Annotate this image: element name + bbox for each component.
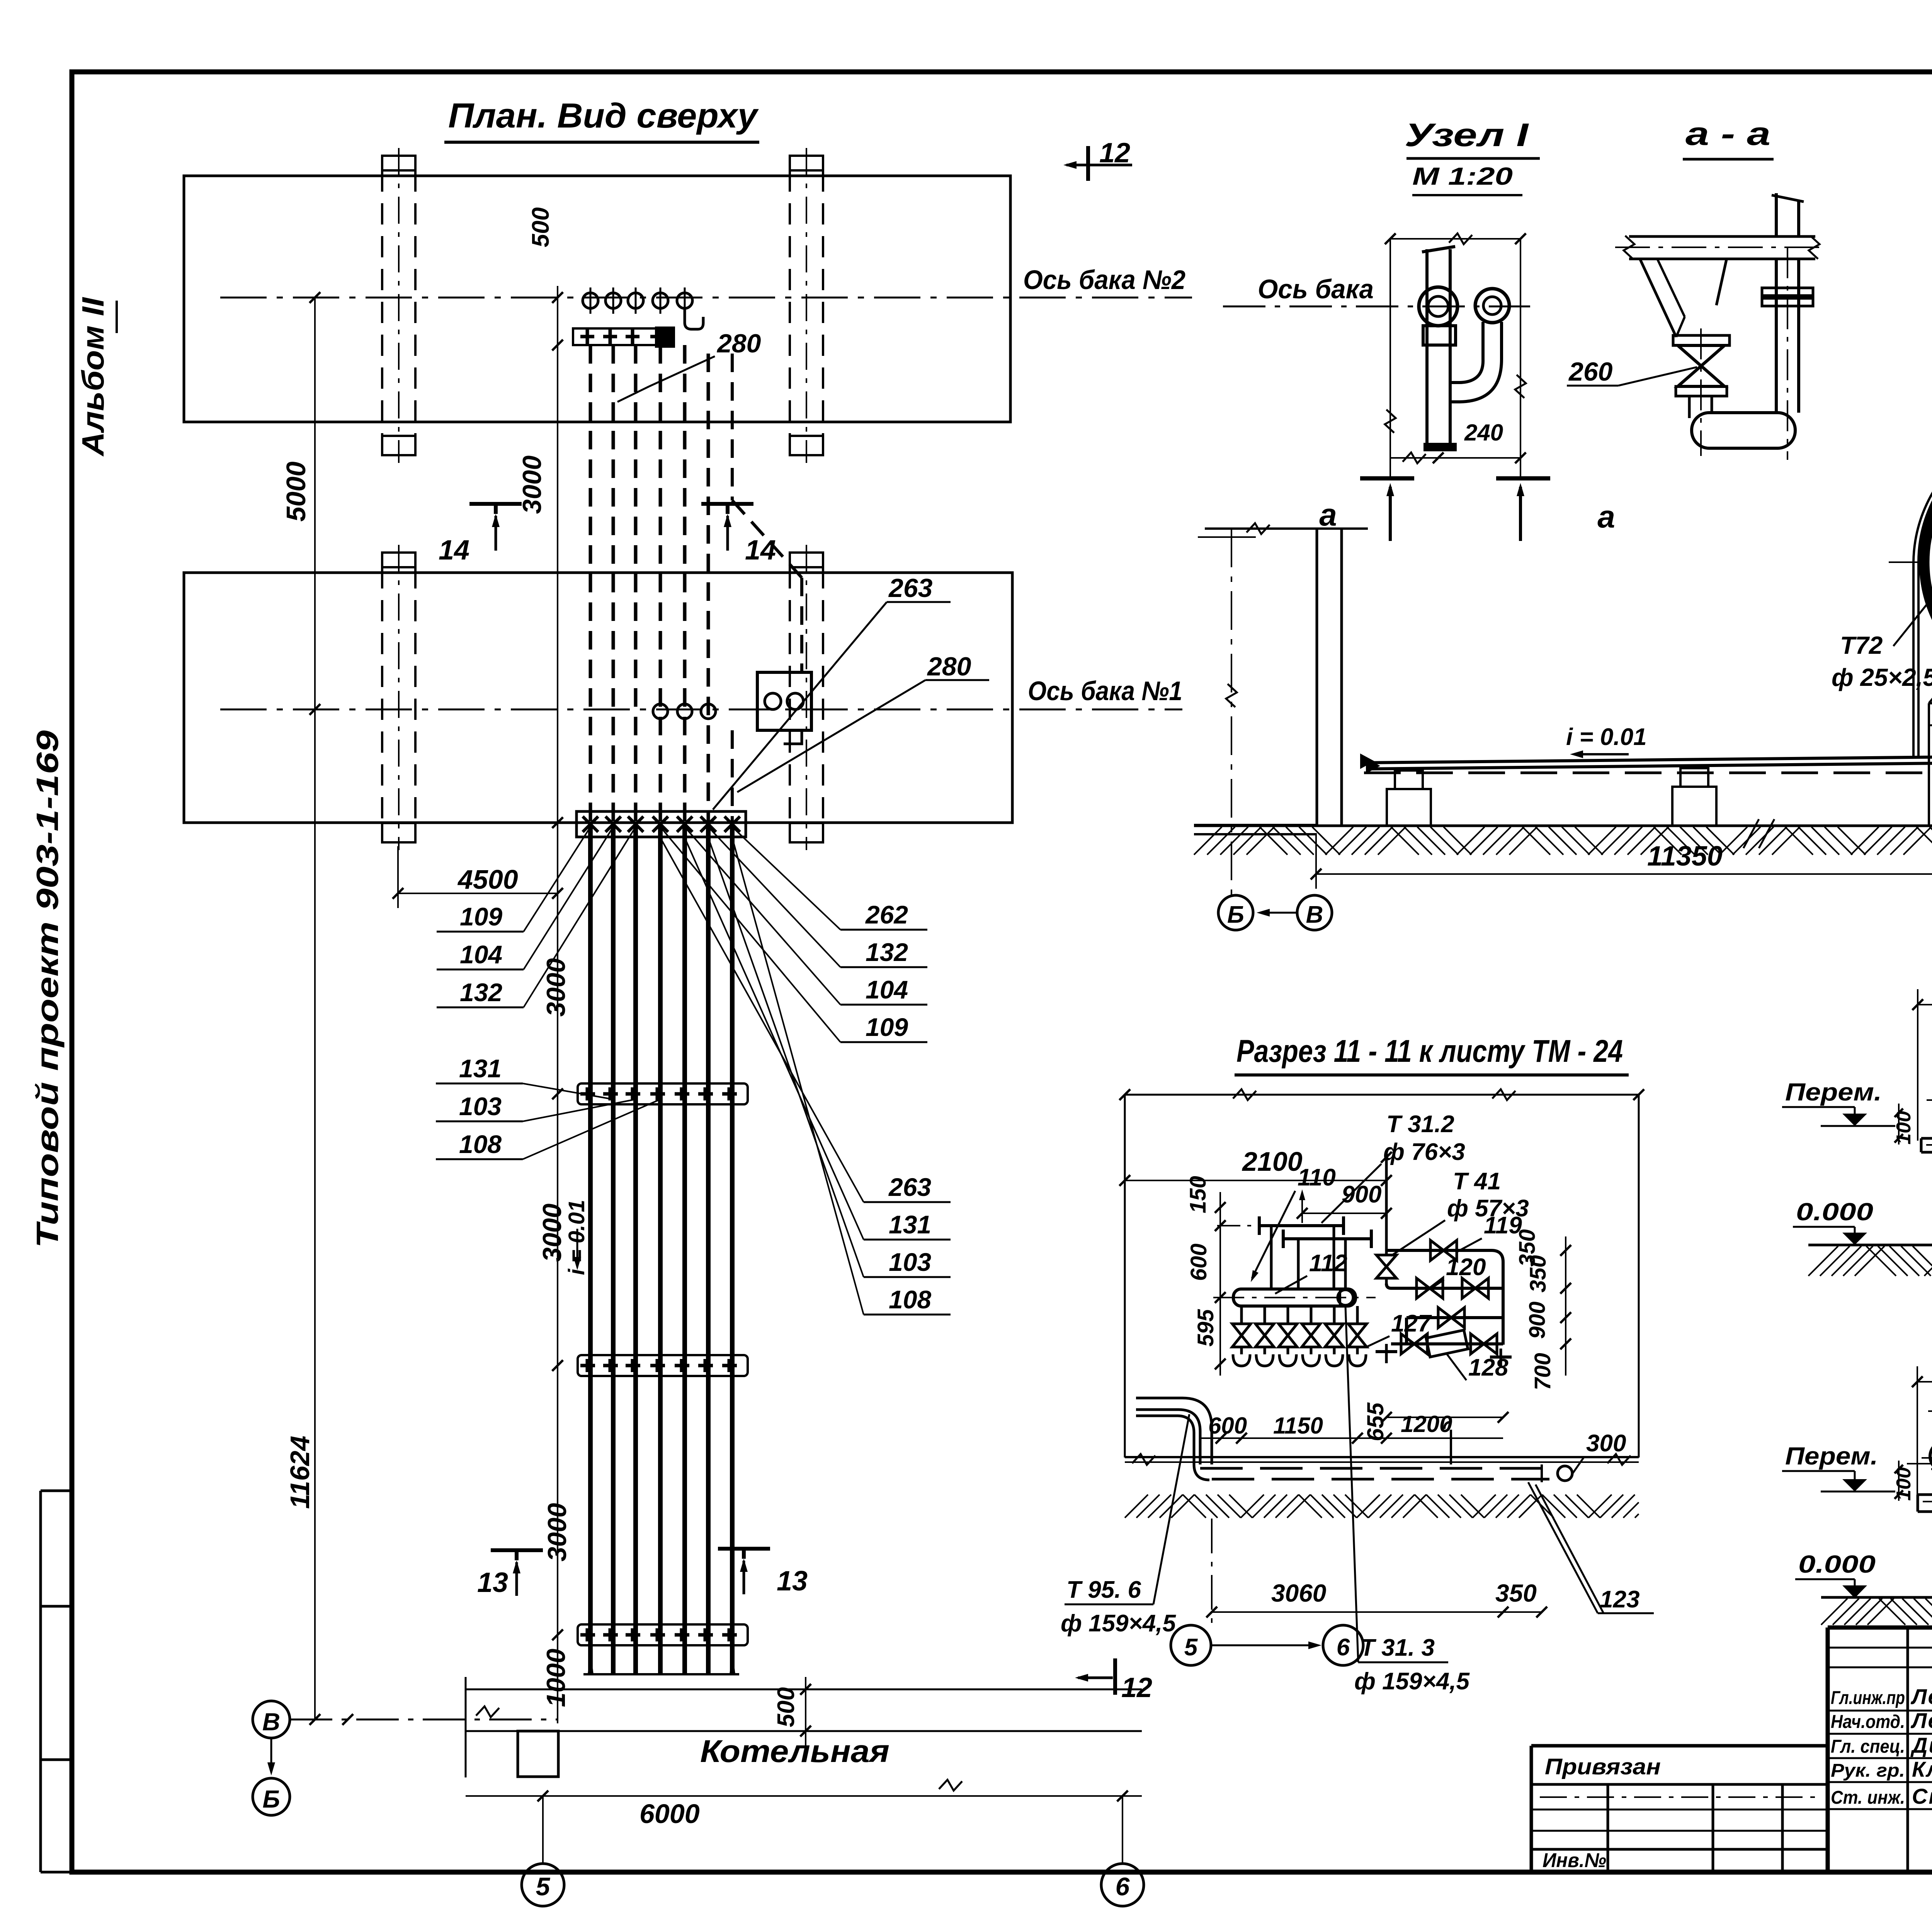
attachment table centerline: [1540, 1796, 1822, 1798]
a-a right pipe flange: [1762, 288, 1813, 296]
anchor box with X-marks at tank1 bottom: [577, 811, 746, 837]
grid axis Б dash-dot vertical: [1231, 529, 1232, 896]
svg-text:1150: 1150: [1273, 1413, 1323, 1439]
svg-text:5000: 5000: [281, 461, 311, 522]
svg-text:900: 900: [1525, 1301, 1550, 1339]
svg-text:14: 14: [439, 535, 469, 566]
svg-text:ф 159×4,5: ф 159×4,5: [1061, 1610, 1176, 1637]
svg-text:ф 25×2,5: ф 25×2,5: [1832, 663, 1932, 691]
grid circle 6 (11-11): [1323, 1625, 1363, 1665]
svg-text:5: 5: [536, 1872, 551, 1901]
node I flange circle 1: [1419, 287, 1458, 326]
support beam 13-13: [1921, 1137, 1932, 1140]
svg-text:6000: 6000: [639, 1799, 700, 1829]
svg-text:3000: 3000: [537, 1204, 567, 1262]
svg-text:108: 108: [889, 1285, 931, 1314]
node I tank axis line: [1223, 306, 1530, 308]
svg-text:Узел I: Узел I: [1405, 117, 1529, 153]
section mark 12 top: [1086, 146, 1090, 181]
svg-text:131: 131: [459, 1054, 502, 1083]
11-11 top boundary line: [1125, 1094, 1639, 1096]
svg-text:i = 0.01: i = 0.01: [1566, 724, 1647, 750]
a-a valve flange bottom: [1676, 386, 1727, 396]
support base: [1928, 703, 1930, 825]
node I top dimension line: [1390, 238, 1520, 240]
pipe support band 1: [578, 1083, 748, 1104]
svg-text:109: 109: [866, 1013, 908, 1041]
svg-text:а - а: а - а: [1685, 116, 1770, 152]
bracket drop rods: [1270, 1226, 1273, 1289]
grid circle 5 (11-11): [1171, 1625, 1211, 1665]
svg-text:280: 280: [716, 329, 761, 358]
svg-text:120: 120: [1446, 1254, 1486, 1281]
support beam 14-14: [1918, 1493, 1932, 1496]
svg-text:350: 350: [1515, 1229, 1540, 1267]
left margin strip boxes: [39, 1491, 42, 1872]
11-11 pipe branch B: [1386, 1284, 1503, 1288]
svg-text:Клоков: Клоков: [1912, 1757, 1932, 1781]
svg-text:350: 350: [1495, 1579, 1537, 1607]
svg-text:Ось бака №1: Ось бака №1: [1028, 676, 1182, 706]
dim line 11350 / 4500: [1316, 873, 1932, 875]
svg-text:а: а: [1319, 497, 1337, 532]
node I flange circle 2: [1475, 289, 1509, 323]
boiler house wall lines (plan bottom): [466, 1689, 1142, 1690]
svg-text:14: 14: [745, 535, 776, 566]
svg-text:Левитан: Левитан: [1910, 1684, 1932, 1709]
svg-text:12: 12: [1121, 1672, 1152, 1703]
axis line tank No.1: [220, 709, 1182, 711]
collector outlet valves row: [1240, 1306, 1243, 1323]
building column A (tank2 left): [382, 156, 415, 170]
svg-text:900: 900: [1342, 1181, 1381, 1208]
grid circle Б: [253, 1778, 290, 1815]
ground hatch section 12-12: [1194, 827, 1932, 855]
svg-text:127: 127: [1391, 1310, 1432, 1337]
riser circles on tank1 axis: [653, 704, 668, 719]
svg-text:103: 103: [459, 1092, 502, 1121]
node I right dim extension: [1520, 239, 1521, 479]
svg-text:109: 109: [460, 902, 502, 931]
grid circle Б (section): [1218, 895, 1253, 930]
svg-text:600: 600: [1186, 1243, 1211, 1281]
svg-text:4500: 4500: [457, 864, 518, 895]
svg-text:ф 159×4,5: ф 159×4,5: [1354, 1668, 1470, 1695]
riser pipe tank1: [1918, 426, 1932, 757]
title block signature columns: [1906, 1628, 1909, 1872]
grid circle В: [253, 1701, 290, 1738]
axis line tank No.2: [220, 297, 1192, 299]
a-a valve body: [1678, 345, 1725, 386]
insulation arc 280: [1923, 430, 1932, 650]
svg-text:Т 95. 6: Т 95. 6: [1066, 1577, 1141, 1603]
svg-text:1000: 1000: [541, 1649, 571, 1707]
pipe support band 3: [578, 1624, 748, 1645]
grid circle В (section): [1297, 895, 1332, 930]
attachment box 'Привязан': [1531, 1744, 1828, 1748]
ground hatch 13-13: [1808, 1246, 1932, 1276]
svg-text:112: 112: [1309, 1250, 1347, 1277]
drain funnel at floor: [1450, 1430, 1452, 1464]
svg-text:Перем.: Перем.: [1785, 1442, 1878, 1470]
svg-text:13: 13: [777, 1566, 808, 1597]
svg-text:Ст. инж.: Ст. инж.: [1831, 1787, 1905, 1808]
svg-text:а: а: [1597, 499, 1615, 534]
pipeline 7 with offset jog (dashed): [731, 354, 734, 500]
svg-text:Перем.: Перем.: [1785, 1078, 1882, 1106]
svg-text:0.000: 0.000: [1798, 1550, 1876, 1578]
pipe pedestal 2: [1680, 768, 1708, 787]
title block signature rows: [1828, 1647, 1932, 1649]
svg-text:Гл.инж.пр: Гл.инж.пр: [1831, 1688, 1905, 1708]
a-a horizontal cylinder pipe: [1692, 413, 1795, 448]
ground break marks: [1743, 819, 1759, 848]
filter on branch D: [1426, 1330, 1468, 1357]
tank No.2 outline (plan): [184, 176, 1010, 422]
svg-text:12: 12: [1099, 138, 1130, 168]
a-a ceiling beam: [1629, 235, 1815, 238]
building column B (tank2 right): [790, 156, 823, 170]
grid circle 5: [522, 1864, 564, 1906]
11-11 pipe branch C: [1406, 1316, 1503, 1319]
wall column square: [518, 1731, 558, 1777]
11-11 riser pipe T41: [1385, 1151, 1388, 1255]
svg-text:3000: 3000: [541, 958, 571, 1017]
floor slab left of wall: [1194, 824, 1317, 826]
building column D (tank1 right): [790, 553, 823, 567]
pipe anchor band at tank2: [573, 328, 673, 345]
pipe axis dashes 13-13: [1927, 1099, 1932, 1101]
tank axis cross lines: [1889, 561, 1932, 563]
svg-text:104: 104: [460, 940, 502, 969]
tank No.1 outline (plan): [184, 573, 1012, 823]
ground line section 12-12: [1194, 825, 1932, 827]
building wall (section 12-12 left): [1316, 529, 1318, 825]
svg-text:Рук. гр.: Рук. гр.: [1831, 1760, 1905, 1781]
svg-text:11350: 11350: [1647, 841, 1723, 872]
11-11 left boundary: [1124, 1095, 1126, 1458]
node I main vertical pipe: [1425, 249, 1429, 444]
svg-text:0.000: 0.000: [1796, 1198, 1873, 1226]
svg-text:150: 150: [1185, 1176, 1211, 1213]
pipe end markers: [588, 1649, 594, 1674]
svg-text:2100: 2100: [1242, 1146, 1303, 1177]
section mark 13 right: [718, 1547, 770, 1551]
svg-text:13: 13: [477, 1567, 508, 1598]
svg-text:500: 500: [527, 207, 554, 247]
svg-text:3000: 3000: [517, 456, 547, 514]
svg-text:Разрез 11 - 11 к листу ТМ -: Разрез 11 - 11 к листу ТМ - 24: [1236, 1034, 1623, 1069]
underground pipe end circle: [1558, 1466, 1572, 1481]
svg-text:595: 595: [1193, 1309, 1218, 1347]
svg-text:260: 260: [1568, 357, 1613, 386]
riser circles on tank2 axis: [583, 293, 598, 308]
support saddle: [1929, 667, 1932, 703]
a-a pipe stub above beam: [1775, 193, 1778, 236]
pipe axis dashes 14-14: [1907, 1463, 1932, 1464]
svg-text:Т 31. 3: Т 31. 3: [1360, 1634, 1435, 1661]
hidden pipelines (dashed) tank area: [589, 345, 592, 823]
11-11 pipe branch D: [1391, 1342, 1503, 1345]
11-11 support bracket lower: [1283, 1237, 1371, 1240]
dim 4500 horizontal: [398, 893, 558, 894]
title block outer top edge: [1828, 1626, 1932, 1630]
svg-text:132: 132: [866, 938, 908, 966]
main pipelines (solid) below tank1: [588, 823, 593, 1674]
svg-text:655: 655: [1362, 1402, 1388, 1441]
svg-text:Лепендин: Лепендин: [1910, 1708, 1932, 1733]
underground pipe run (dashed): [1200, 1467, 1559, 1470]
11-11 floor line: [1125, 1456, 1639, 1458]
svg-text:110: 110: [1298, 1164, 1336, 1191]
svg-text:Б: Б: [1227, 901, 1244, 928]
arrow from В to Б: [270, 1738, 272, 1770]
svg-text:123: 123: [1600, 1586, 1639, 1613]
pipe stand T left: [1385, 1344, 1388, 1363]
section mark 14 left: [469, 502, 522, 506]
pipe support band 2: [578, 1355, 748, 1376]
a-a tank shell fragment: [1640, 260, 1676, 337]
svg-text:М 1:20: М 1:20: [1412, 162, 1513, 190]
attachment table grid: [1607, 1784, 1609, 1872]
svg-text:131: 131: [889, 1210, 931, 1239]
svg-text:6: 6: [1116, 1872, 1130, 1901]
a-a valve flange top: [1673, 335, 1730, 345]
a-a elbow pipe down: [1688, 396, 1691, 418]
11-11 collector cylinder: [1233, 1289, 1355, 1306]
pipe pedestal 1: [1395, 770, 1423, 789]
svg-text:Т 41: Т 41: [1453, 1168, 1501, 1195]
11-11 support bracket top: [1259, 1224, 1344, 1227]
node I left dim extension: [1389, 239, 1391, 479]
svg-text:103: 103: [889, 1248, 931, 1276]
svg-text:Котельная: Котельная: [700, 1734, 889, 1769]
fuel pipeline sloped (solid): [1366, 752, 1932, 763]
pipe stand T right: [1500, 1349, 1502, 1368]
pipes on supports 14-14: [1930, 1441, 1932, 1471]
ground line 14-14: [1821, 1596, 1932, 1599]
svg-text:В: В: [1306, 901, 1323, 928]
11-11 right boundary: [1638, 1095, 1640, 1458]
svg-text:Гл. спец.: Гл. спец.: [1831, 1736, 1905, 1757]
svg-text:108: 108: [459, 1130, 502, 1158]
svg-text:Нач.отд.: Нач.отд.: [1831, 1712, 1905, 1732]
svg-text:132: 132: [460, 978, 502, 1007]
svg-text:5: 5: [1184, 1634, 1198, 1661]
svg-text:Привязан: Привязан: [1545, 1754, 1661, 1779]
11-11 pipe branch A: [1386, 1250, 1503, 1275]
svg-text:6: 6: [1337, 1634, 1350, 1661]
svg-text:Альбом II: Альбом II: [76, 297, 110, 457]
svg-text:Ось бака №2: Ось бака №2: [1023, 265, 1185, 295]
node I box with riser circles (plan): [757, 672, 811, 730]
svg-text:104: 104: [866, 975, 908, 1004]
svg-text:Дигин: Дигин: [1910, 1733, 1932, 1757]
ground hatch 14-14: [1821, 1599, 1932, 1625]
svg-text:600: 600: [1208, 1413, 1247, 1439]
svg-text:Ось бака: Ось бака: [1258, 274, 1374, 304]
section mark 12 bottom: [1113, 1658, 1117, 1695]
section mark 13 left: [491, 1548, 543, 1552]
svg-text:11624: 11624: [285, 1436, 315, 1509]
node I U-bend pipe: [1450, 322, 1502, 402]
tank circle at x=5318: [1928, 435, 1932, 689]
svg-text:128: 128: [1468, 1354, 1509, 1381]
section mark 14 right: [701, 502, 753, 506]
11-11 ground hatch: [1125, 1495, 1639, 1518]
return line (dashed): [1364, 772, 1932, 774]
svg-text:Б: Б: [262, 1785, 280, 1813]
vertical dim line x=815 (5000/11624): [314, 298, 316, 1719]
svg-text:Т 31.2: Т 31.2: [1386, 1111, 1454, 1138]
svg-text:263: 263: [888, 573, 933, 603]
arrow 5 to 6: [1211, 1645, 1316, 1646]
11-11 right header: [1502, 1275, 1505, 1345]
section mark a right: [1496, 476, 1550, 481]
axis dash-dot to В: [290, 1719, 558, 1721]
sub dimension line 14-14: [1928, 1410, 1932, 1412]
building column C (tank1 left): [382, 553, 415, 567]
dim 6000 bottom: [466, 1795, 1142, 1797]
collector axis dash: [1213, 1297, 1376, 1298]
svg-text:Типовой проект 903-1-169: Типовой проект 903-1-169: [30, 730, 65, 1248]
grid circle 6: [1101, 1864, 1144, 1906]
J-bend pipe at riser 5: [685, 308, 703, 329]
vertical dimension chain line x=1443: [557, 286, 558, 1723]
svg-text:Т72: Т72: [1840, 631, 1883, 659]
a-a center lines: [1700, 328, 1702, 456]
title block left edge: [1826, 1628, 1830, 1872]
svg-text:В: В: [262, 1708, 280, 1736]
a-a right vertical pipe: [1775, 259, 1778, 413]
svg-text:263: 263: [888, 1173, 931, 1201]
svg-text:План. Вид сверху: План. Вид сверху: [448, 97, 759, 135]
node I dim 240: [1390, 457, 1520, 459]
svg-text:262: 262: [865, 900, 908, 929]
svg-text:500: 500: [773, 1687, 799, 1727]
svg-text:Смирнова: Смирнова: [1912, 1784, 1932, 1808]
svg-text:3060: 3060: [1271, 1579, 1326, 1607]
ground line 13-13: [1808, 1244, 1932, 1247]
svg-text:280: 280: [927, 652, 971, 681]
underground pipe entry curves: [1136, 1398, 1212, 1464]
svg-text:ф 76×3: ф 76×3: [1383, 1139, 1465, 1165]
section mark a left: [1360, 476, 1414, 481]
svg-text:700: 700: [1530, 1353, 1555, 1390]
svg-text:3000: 3000: [543, 1503, 572, 1561]
svg-text:Инв.№: Инв.№: [1543, 1849, 1606, 1872]
svg-text:240: 240: [1464, 420, 1503, 446]
node I valve body box: [1423, 326, 1456, 345]
svg-text:300: 300: [1586, 1430, 1626, 1457]
11-11 riser valve: [1376, 1255, 1396, 1278]
arrow В to Б: [1260, 912, 1297, 914]
